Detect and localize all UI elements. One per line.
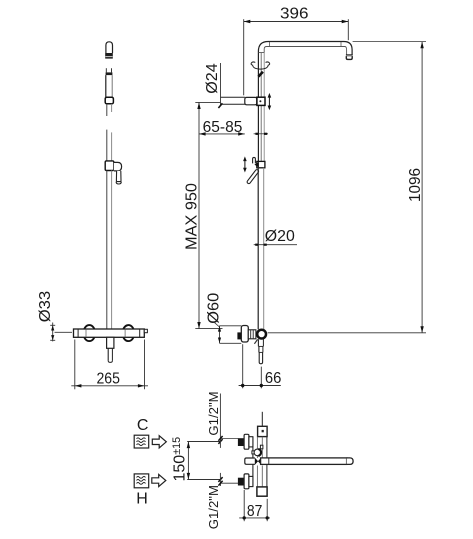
svg-text:C: C <box>137 417 149 434</box>
rotation symbol (curved arrow around pipe) <box>251 62 270 77</box>
top connection square <box>258 426 268 436</box>
svg-text:150±15: 150±15 <box>171 437 189 482</box>
diverter knob (side) <box>252 445 263 456</box>
bottom inlet (nipple + flange + spacer) <box>238 474 253 489</box>
svg-text:H: H <box>136 491 148 508</box>
column pipe lower (2 lines, below slider) <box>258 168 264 329</box>
column pipe upper (3 lines, between bend and slider) <box>258 53 264 162</box>
dimension 65-85 (bracket reach) <box>199 119 268 136</box>
mixer body (side) <box>253 437 267 487</box>
outlet stub toward wall <box>245 458 255 464</box>
dimension 87 (wall to outlet) <box>239 490 270 521</box>
hot water label H <box>134 474 166 508</box>
label G1/2"M bottom with leader <box>206 473 238 529</box>
dimension MAX 950 (vertical) <box>184 102 223 328</box>
svg-text:G1/2"M: G1/2"M <box>206 391 221 435</box>
shower arm (top horizontal, with right end bend and hose nozzle) <box>258 42 352 55</box>
rail upper mount collar <box>105 97 113 104</box>
dimension O33 (rail diameter, rotated label) <box>37 291 72 342</box>
top inlet (nipple + flange + spacer) <box>238 434 253 449</box>
rail segment with break <box>107 104 112 161</box>
ball joint at column base <box>254 330 266 344</box>
svg-text:MAX 950: MAX 950 <box>184 183 201 250</box>
svg-text:1096: 1096 <box>407 168 424 202</box>
slider lever (diagonal handle) <box>249 171 257 182</box>
svg-text:Ø60: Ø60 <box>206 292 223 323</box>
slider holder knob on pipe <box>253 157 265 167</box>
long spout bar (side) <box>261 458 354 465</box>
dimension 1096 (overall height, right) <box>268 42 426 333</box>
bottom connection square <box>257 487 267 496</box>
svg-text:G1/2"M: G1/2"M <box>206 485 221 529</box>
svg-text:Ø24: Ø24 <box>204 63 221 94</box>
column stub above <box>261 412 263 427</box>
rail lower segment down to mixer <box>107 171 112 329</box>
mixer outlet below <box>107 337 114 362</box>
wall flange (O60) with nut and connector <box>237 326 256 343</box>
up-down adjust arrow right of bracket <box>268 93 272 110</box>
lower hose connection tube below ball <box>258 339 263 364</box>
label O24 (rotated) with leader to bracket <box>204 63 222 108</box>
dimension O60 (flange, rotated label) <box>206 292 242 343</box>
svg-text:Ø20: Ø20 <box>265 228 295 245</box>
svg-text:66: 66 <box>265 370 282 387</box>
slider holder (side) with hand shower handle <box>105 161 121 184</box>
dimension 150+-15 (inlet spacing, rotated) <box>171 437 223 482</box>
svg-text:Ø33: Ø33 <box>37 291 54 323</box>
svg-text:396: 396 <box>280 6 309 23</box>
hand shower head (side) <box>105 42 113 59</box>
dimension 396 (arm length) <box>244 6 349 96</box>
dimension 66 (wall to pipe axis) <box>239 344 282 388</box>
wall bracket (65-85 adjustable) <box>221 97 266 105</box>
rail top cap <box>106 68 113 97</box>
thermostatic mixer body (front view) <box>74 325 148 341</box>
up-down adjust arrow left of slider <box>243 156 247 172</box>
label G1/2"M top with leader <box>206 391 238 448</box>
svg-text:265: 265 <box>96 371 120 388</box>
dimension 265 (mixer width) <box>71 340 148 390</box>
hose nozzle at right end of arm <box>346 55 353 60</box>
cold water label C <box>134 417 166 448</box>
ball joint (bowtie) <box>255 458 261 465</box>
label O20 with leader ticks on pipe <box>254 228 297 245</box>
